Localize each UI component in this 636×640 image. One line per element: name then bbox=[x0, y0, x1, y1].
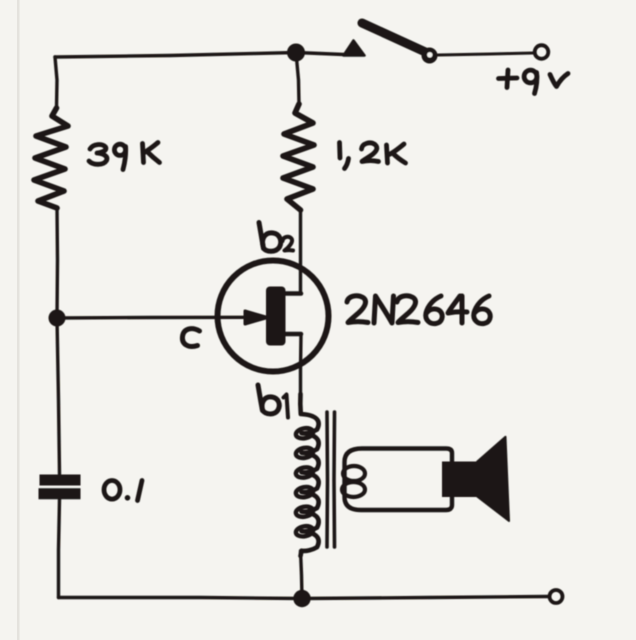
wire left rail bottom bbox=[59, 499, 60, 598]
label +9v bbox=[499, 70, 569, 94]
transformer T1 primary loop 5 bbox=[295, 505, 314, 518]
label 1,2K bbox=[340, 143, 406, 169]
transformer T1 primary loop 3 bbox=[295, 466, 314, 479]
wire bottom rail bbox=[59, 597, 548, 599]
terminal +9v bbox=[535, 45, 549, 59]
transistor Q1 circle bbox=[218, 261, 329, 372]
switch S1 contact triangle bbox=[344, 41, 365, 56]
wire b1 down bbox=[299, 334, 303, 394]
label 2N2646 bbox=[347, 296, 490, 324]
node A junction dot left bbox=[49, 310, 66, 327]
wire middle branch upper bbox=[296, 53, 299, 105]
transformer T1 primary loop 4 bbox=[295, 486, 314, 499]
resistor R1 39K bbox=[34, 108, 68, 208]
transistor Q1 b1 lead bbox=[285, 332, 301, 337]
wire middle branch to b2 bbox=[299, 210, 302, 294]
transformer T1 primary coil bbox=[300, 394, 318, 556]
transformer T1 core line left bbox=[325, 412, 329, 547]
node B junction dot top bbox=[287, 44, 305, 62]
switch S1 lever bbox=[362, 23, 427, 53]
label b1 bbox=[258, 385, 288, 418]
node ground junction dot bottom bbox=[293, 590, 310, 607]
transformer T1 secondary loop 1 bbox=[343, 466, 365, 481]
capacitor C1 plate top bbox=[40, 475, 81, 486]
transformer T1 secondary loop 2 bbox=[342, 482, 365, 497]
transistor Q1 b2 lead bbox=[285, 291, 301, 296]
capacitor C1 plate bottom bbox=[39, 488, 81, 499]
wire left rail mid bbox=[55, 208, 59, 318]
wire switch to +9v terminal bbox=[438, 53, 533, 55]
wire coil bottom to rail bbox=[301, 551, 303, 599]
wire emitter bbox=[57, 316, 248, 320]
wire top rail bbox=[55, 53, 344, 58]
label 39K bbox=[89, 143, 160, 170]
wire left rail upper bbox=[55, 57, 57, 108]
label c bbox=[182, 329, 199, 347]
terminal output negative bbox=[550, 590, 563, 603]
label b2 bbox=[259, 223, 293, 252]
switch S1 pivot bbox=[422, 48, 438, 64]
wire left rail lower bbox=[57, 318, 60, 474]
resistor R2 1.2K bbox=[283, 104, 314, 210]
label 0.1 bbox=[104, 481, 142, 501]
speaker LS1 cone bbox=[477, 437, 509, 521]
transistor Q1 emitter arrow bbox=[245, 311, 268, 324]
scan crease bbox=[17, 0, 20, 640]
transformer T1 core line right bbox=[332, 412, 336, 547]
transformer T1 secondary outline bbox=[345, 449, 453, 511]
speaker LS1 driver bbox=[442, 462, 477, 498]
transformer T1 primary loop 6 bbox=[295, 525, 314, 538]
transistor Q1 base bar bbox=[266, 287, 286, 346]
transformer T1 primary loop 1 bbox=[295, 427, 314, 440]
transformer T1 primary loop 2 bbox=[295, 446, 314, 459]
